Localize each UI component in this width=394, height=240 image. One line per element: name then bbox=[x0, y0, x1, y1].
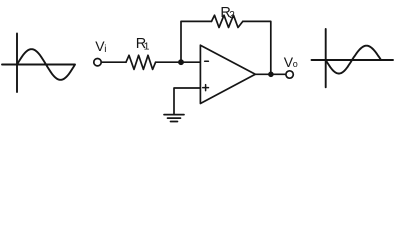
wire non-inverting input to ground bbox=[174, 88, 200, 114]
ground bbox=[164, 115, 184, 122]
output waveform vertical axis bbox=[325, 29, 327, 87]
output node junction dot bbox=[268, 72, 274, 78]
input waveform horizontal axis bbox=[2, 64, 75, 66]
resistor R1 bbox=[126, 55, 156, 69]
output terminal circle (Vo) bbox=[286, 71, 293, 78]
wire Vi terminal to R1 bbox=[102, 61, 126, 63]
node A junction dot bbox=[178, 59, 184, 65]
svg-text:o: o bbox=[293, 59, 298, 69]
output waveform horizontal axis bbox=[312, 59, 394, 61]
svg-text:i: i bbox=[104, 44, 106, 55]
wire junction up to feedback rail bbox=[181, 21, 212, 62]
op-amp minus sign bbox=[205, 60, 209, 62]
input sine wave bbox=[17, 49, 75, 80]
wire R2 down to output node bbox=[243, 21, 271, 74]
op-amp U1 triangle bbox=[200, 45, 255, 103]
svg-text:2: 2 bbox=[229, 10, 235, 21]
input waveform vertical axis bbox=[16, 34, 18, 93]
op-amp plus sign bbox=[203, 85, 209, 91]
resistor R2 bbox=[212, 15, 243, 27]
wire op-amp output to Vo terminal bbox=[255, 73, 285, 75]
wire R1 to inverting input bbox=[156, 61, 201, 63]
output sine wave (inverted) bbox=[326, 46, 381, 74]
svg-text:1: 1 bbox=[144, 40, 150, 52]
input terminal circle (Vi) bbox=[94, 59, 101, 66]
